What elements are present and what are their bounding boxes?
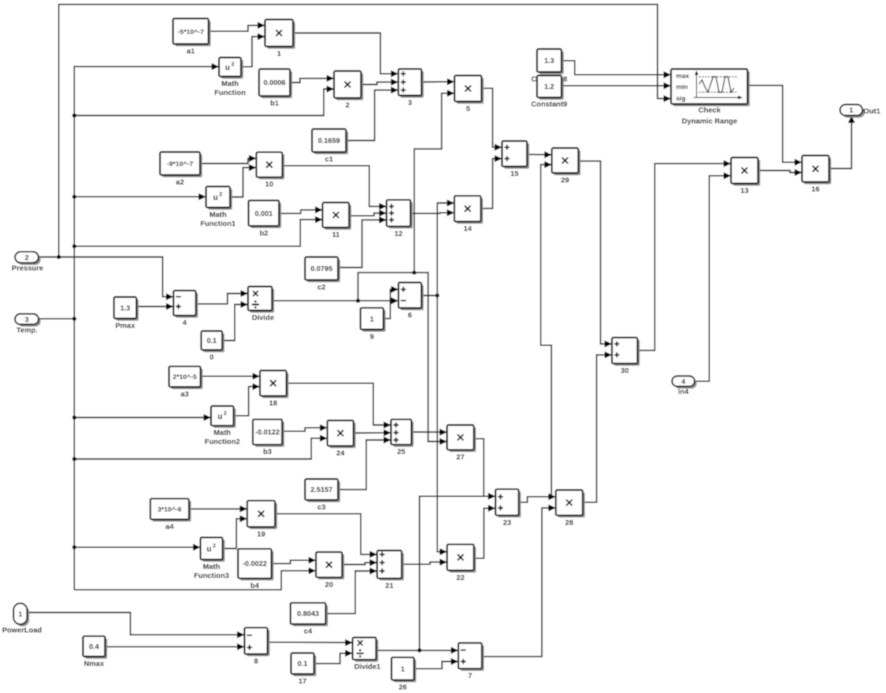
svg-text:12: 12 — [394, 229, 402, 238]
wire product 19 to sum 21 — [275, 514, 377, 558]
wire Temp branch to product 20 — [74, 567, 316, 590]
Check Dynamic Range — [671, 69, 750, 126]
svg-text:20: 20 — [325, 580, 333, 589]
junction Divide branch — [356, 299, 360, 303]
wire sum 25 to product 27 — [411, 429, 447, 436]
wire sum 6 to product 14 — [437, 200, 454, 296]
wire a4 to product 19 — [189, 505, 247, 512]
wire product 18 to sum 25 — [286, 383, 391, 428]
wire Divide1 branch to sum 23 — [420, 493, 496, 651]
svg-text:2: 2 — [345, 101, 349, 110]
constant c2 — [305, 257, 340, 292]
sum 23 — [496, 489, 521, 527]
svg-text:b3: b3 — [263, 447, 272, 456]
product 27 — [447, 425, 476, 461]
svg-text:u: u — [217, 412, 222, 421]
svg-text:29: 29 — [561, 176, 569, 185]
wire sum 12 to product 14 — [411, 209, 455, 216]
wire b4 to product 20 — [271, 557, 316, 564]
svg-text:2: 2 — [213, 544, 216, 550]
svg-text:24: 24 — [336, 448, 345, 457]
constant c1 — [312, 129, 348, 164]
svg-text:a3: a3 — [181, 389, 189, 398]
product 29 — [552, 148, 581, 185]
sum 12 — [387, 200, 413, 238]
svg-text:u: u — [225, 63, 230, 72]
svg-text:30: 30 — [621, 366, 629, 375]
svg-text:0.1659: 0.1659 — [318, 136, 340, 145]
svg-text:a1: a1 — [187, 47, 195, 56]
svg-text:-0.0122: -0.0122 — [255, 428, 279, 437]
svg-text:1.2: 1.2 — [544, 82, 554, 91]
svg-text:1.3: 1.3 — [120, 303, 130, 312]
wire b2 to product 11 — [279, 206, 323, 213]
wire b3 to product 24 — [282, 424, 327, 431]
junction Temp branch d — [72, 244, 76, 248]
sum 21 — [377, 551, 404, 590]
svg-text:PowerLoad: PowerLoad — [2, 626, 42, 635]
product 20 — [316, 552, 344, 589]
svg-text:2: 2 — [231, 62, 234, 68]
wire Nmax to sum 8 — [105, 643, 245, 650]
wire Math Function to product 1 — [241, 33, 265, 67]
svg-text:0.8043: 0.8043 — [297, 609, 319, 618]
svg-text:18: 18 — [269, 398, 277, 407]
svg-text:23: 23 — [503, 518, 511, 527]
port Temp — [15, 314, 41, 335]
svg-text:a2: a2 — [176, 178, 184, 187]
svg-text:19: 19 — [257, 529, 265, 538]
wire Pressure to sum 4 — [39, 257, 174, 300]
wire sum 4 to Divide — [196, 290, 248, 304]
svg-text:0.1: 0.1 — [298, 659, 308, 668]
constant b1 — [259, 69, 292, 108]
svg-text:3*10^-6: 3*10^-6 — [158, 506, 182, 514]
svg-text:2.5157: 2.5157 — [311, 485, 333, 494]
svg-text:Constant9: Constant9 — [531, 100, 567, 109]
wire Math Function3 to product 19 — [223, 515, 248, 548]
svg-text:14: 14 — [463, 224, 472, 233]
port In4 — [672, 376, 697, 396]
constant a3 — [169, 366, 203, 398]
svg-text:Dynamic Range: Dynamic Range — [682, 117, 737, 126]
wire sum 7 to product 28 — [482, 504, 556, 656]
svg-text:13: 13 — [740, 186, 748, 195]
wire product 27 junction — [474, 439, 484, 497]
sum 4 — [173, 291, 198, 328]
junction Temp branch e — [72, 416, 76, 420]
svg-text:Check: Check — [698, 106, 721, 115]
wire c4 to sum 21 — [326, 568, 377, 614]
constant Constant9 — [531, 76, 567, 109]
math function Math Function2 — [205, 406, 240, 446]
product 19 — [247, 501, 277, 539]
svg-text:0.1: 0.1 — [207, 336, 217, 345]
svg-text:Function3: Function3 — [194, 571, 229, 580]
svg-text:17: 17 — [298, 677, 306, 686]
wire c1 to sum 3 — [346, 87, 398, 141]
svg-text:Math: Math — [209, 210, 227, 219]
port PowerLoad — [2, 603, 42, 634]
wire a3 to product 18 — [201, 373, 260, 380]
constant 0 — [201, 331, 224, 362]
wire Math Function1 to product 10 — [230, 164, 256, 197]
product 11 — [323, 203, 352, 240]
wire product 24 to sum 25 — [354, 429, 392, 436]
wire product 29 to sum 30 — [578, 161, 612, 347]
svg-text:2*10^-5: 2*10^-5 — [173, 373, 197, 381]
svg-text:Nmax: Nmax — [84, 659, 105, 668]
divide Divide1 — [353, 637, 381, 671]
wire sum 8 to Divide1 — [268, 639, 353, 646]
product 5 — [455, 76, 484, 114]
svg-text:11: 11 — [332, 230, 340, 239]
svg-text:u: u — [213, 193, 218, 202]
svg-text:9: 9 — [370, 332, 374, 341]
product 13 — [731, 158, 760, 196]
svg-text:1: 1 — [849, 108, 853, 115]
wire Constant9 to Check min input — [562, 82, 672, 89]
constant Constant8 — [531, 49, 567, 84]
wire Check Dynamic Range to product 16 — [748, 85, 802, 165]
sum 7 — [458, 643, 484, 680]
svg-text:Function2: Function2 — [205, 437, 240, 446]
junction Temp branch c — [72, 195, 76, 199]
svg-text:25: 25 — [397, 447, 405, 456]
svg-text:1.3: 1.3 — [544, 56, 554, 65]
wire a2 to product 10 — [200, 155, 256, 164]
svg-text:3: 3 — [408, 98, 412, 107]
svg-text:-9*10^-7: -9*10^-7 — [167, 160, 193, 168]
svg-text:-0.0022: -0.0022 — [243, 559, 267, 568]
svg-text:2: 2 — [224, 411, 227, 417]
svg-text:2: 2 — [219, 192, 222, 198]
junction Divide1 branch — [418, 648, 422, 652]
svg-text:c3: c3 — [317, 503, 325, 512]
svg-text:28: 28 — [565, 518, 573, 527]
wire Constant8 to Check max input — [562, 61, 672, 78]
wire c2 to sum 12 — [338, 216, 387, 267]
svg-text:21: 21 — [385, 581, 393, 590]
wire product 5 to sum 15 — [482, 88, 503, 151]
wire constant 0 to Divide — [222, 301, 248, 341]
constant 26 — [392, 657, 417, 691]
svg-text:10: 10 — [265, 180, 273, 189]
constant a4 — [150, 499, 191, 531]
wire product 28 to sum 30 — [583, 351, 612, 502]
wire constant 9 to sum 6 — [383, 286, 398, 319]
wire sum 6 output — [421, 295, 437, 297]
constant a2 — [160, 152, 202, 187]
svg-text:Math: Math — [214, 428, 232, 437]
wire sum 23 to product 28 — [519, 493, 556, 502]
wire Divide branch to product 5 — [414, 90, 454, 273]
product 2 — [334, 71, 363, 110]
svg-text:Divide1: Divide1 — [354, 662, 380, 671]
wire sum 23 branch to product 29 — [541, 161, 552, 497]
junction Temp branch g — [72, 545, 76, 549]
sum 25 — [391, 419, 414, 456]
svg-text:sig: sig — [676, 96, 686, 103]
wire Pressure branch to Check sig input — [59, 4, 671, 257]
wire Temp branch to Math Function2 — [74, 414, 211, 421]
svg-text:2: 2 — [25, 255, 29, 262]
wire Divide to sum 6 — [272, 297, 398, 304]
wire product 10 to sum 12 — [282, 166, 386, 210]
wire sum 6 to product 22 — [437, 296, 447, 556]
junction Temp branch f — [72, 457, 76, 461]
math function Math Function3 — [194, 537, 229, 580]
math function Math Function — [214, 58, 246, 98]
wire product 14 to sum 15 — [481, 155, 502, 208]
svg-text:26: 26 — [399, 683, 407, 692]
math function Math Function1 — [200, 187, 235, 229]
wire sum 30 to product 13 — [638, 160, 732, 350]
wire Math Function2 to product 18 — [234, 383, 260, 416]
wire sum 21 to product 22 — [402, 559, 447, 566]
wire sum 15 to product 29 — [527, 151, 552, 158]
wire product 13 to product 16 — [758, 169, 802, 176]
sum 3 — [398, 69, 423, 107]
constant b3 — [253, 419, 284, 456]
constant b4 — [238, 549, 274, 590]
svg-text:8: 8 — [254, 657, 258, 666]
wire PowerLoad to sum 8 — [27, 613, 244, 639]
product 16 — [802, 156, 831, 194]
wire product 20 to sum 21 — [342, 559, 377, 566]
svg-text:b1: b1 — [270, 99, 279, 108]
svg-text:0.0795: 0.0795 — [311, 264, 333, 273]
svg-text:c2: c2 — [317, 283, 325, 292]
wire Divide1 to sum 7 — [376, 647, 458, 654]
svg-text:22: 22 — [456, 573, 464, 582]
junction Divide branch b — [412, 271, 416, 275]
svg-text:1: 1 — [370, 314, 374, 323]
product 10 — [256, 152, 284, 189]
junction sum 6 branch — [435, 294, 439, 298]
svg-text:-5*10^-7: -5*10^-7 — [178, 28, 204, 36]
svg-text:0.001: 0.001 — [255, 209, 273, 218]
product 28 — [556, 490, 585, 527]
constant c4 — [290, 603, 328, 636]
wire constant 17 to Divide1 — [314, 650, 353, 664]
svg-text:27: 27 — [456, 452, 464, 461]
wire Pmax to sum 4 — [136, 303, 173, 310]
junction Temp junction — [72, 317, 76, 321]
product 1 — [265, 20, 295, 59]
svg-text:Out1: Out1 — [864, 106, 881, 115]
svg-text:0: 0 — [210, 353, 214, 362]
product 18 — [260, 371, 289, 408]
svg-text:In4: In4 — [678, 387, 690, 396]
wire product 16 to Out1 — [829, 116, 855, 169]
svg-text:min: min — [676, 84, 688, 91]
svg-text:1: 1 — [277, 49, 281, 58]
sum 15 — [502, 141, 529, 178]
svg-text:15: 15 — [510, 169, 518, 178]
svg-text:Math: Math — [203, 562, 221, 571]
wire Temp branch to product 11 — [74, 216, 322, 246]
constant 9 — [360, 308, 385, 341]
wire product 2 to sum 3 — [361, 79, 398, 86]
wire Temp branch to Math Function3 — [74, 544, 200, 551]
constant Pmax — [114, 297, 139, 330]
svg-text:0.4: 0.4 — [89, 642, 99, 651]
divide Divide — [248, 287, 274, 323]
product 22 — [447, 544, 476, 582]
wire product 22 to sum 23 — [474, 505, 496, 559]
constant 17 — [291, 653, 316, 686]
wire Temp vertical bus — [74, 63, 219, 590]
svg-text:a4: a4 — [165, 522, 174, 531]
svg-text:Pressure: Pressure — [12, 264, 44, 273]
wire constant 26 to sum 7 — [414, 658, 458, 669]
svg-text:16: 16 — [811, 185, 819, 194]
constant Nmax — [83, 636, 107, 668]
port Pressure — [12, 252, 44, 273]
svg-text:c4: c4 — [304, 627, 313, 636]
svg-text:c1: c1 — [325, 155, 333, 164]
svg-text:Pmax: Pmax — [115, 321, 136, 330]
sum 8 — [245, 628, 270, 666]
svg-text:5: 5 — [466, 104, 470, 113]
wire Divide branch to product 27 — [358, 273, 447, 445]
svg-text:1: 1 — [401, 664, 405, 673]
wire a1 to product 1 — [209, 22, 266, 31]
wire Temp branch to product 2 — [74, 86, 334, 116]
wire product 1 to sum 3 — [293, 33, 398, 77]
svg-text:Function1: Function1 — [200, 219, 235, 228]
wire In4 to product 13 — [695, 172, 731, 381]
wire Temp branch to product 24 — [74, 435, 327, 459]
wire Temp branch to Math Function1 — [74, 193, 206, 200]
wire sum 3 to product 5 — [422, 78, 455, 85]
svg-text:4: 4 — [681, 379, 685, 386]
port Out1 — [840, 105, 865, 118]
junction Pressure branch — [57, 255, 61, 259]
junction Temp branch b — [72, 114, 76, 118]
svg-text:Math: Math — [221, 79, 239, 88]
svg-text:1: 1 — [18, 612, 22, 619]
constant c3 — [305, 479, 340, 512]
sum 6 — [398, 283, 423, 320]
svg-text:0.0006: 0.0006 — [264, 78, 286, 87]
svg-text:u: u — [207, 545, 212, 554]
svg-text:Divide: Divide — [252, 313, 274, 322]
svg-text:b4: b4 — [250, 581, 260, 590]
label Out1 — [864, 106, 881, 115]
svg-text:Temp.: Temp. — [16, 326, 37, 335]
svg-text:Function: Function — [214, 88, 246, 97]
wire Temp to vertical bus — [39, 318, 75, 320]
svg-text:b2: b2 — [259, 228, 268, 237]
wire c3 to sum 25 — [338, 437, 391, 490]
constant b2 — [249, 200, 282, 237]
svg-text:3: 3 — [25, 317, 29, 324]
wire b1 to product 2 — [290, 75, 334, 83]
svg-text:max: max — [676, 73, 690, 80]
constant a1 — [173, 19, 211, 56]
product 24 — [327, 420, 355, 457]
svg-text:6: 6 — [408, 311, 412, 320]
wire product 11 to sum 12 — [349, 210, 386, 217]
sum 30 — [612, 338, 640, 376]
product 14 — [454, 196, 483, 233]
svg-text:7: 7 — [468, 671, 472, 680]
